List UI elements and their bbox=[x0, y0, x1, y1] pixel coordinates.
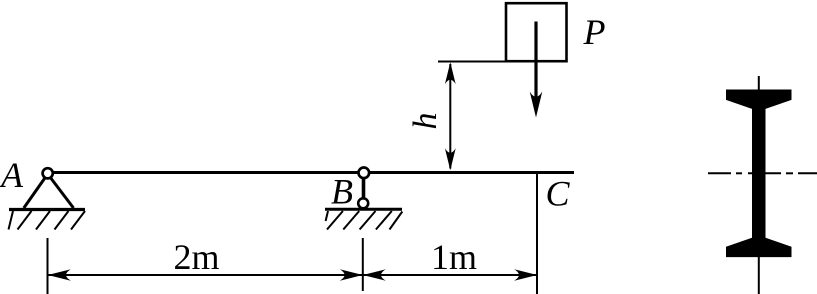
force arrow P bbox=[530, 22, 543, 118]
dimension extension line below A bbox=[47, 238, 49, 294]
arrowhead right at B (2m) bbox=[340, 269, 363, 280]
pin circle B top bbox=[359, 168, 370, 179]
svg-text:A: A bbox=[0, 155, 24, 195]
ground line A bbox=[9, 208, 85, 211]
svg-text:1m: 1m bbox=[431, 237, 477, 277]
svg-text:h: h bbox=[407, 113, 444, 130]
arrowhead left at B (1m) bbox=[363, 269, 386, 280]
dimension h arrow bbox=[445, 62, 456, 170]
ground line B bbox=[325, 208, 402, 211]
dimension line 2m bbox=[48, 274, 363, 276]
beam AC bbox=[50, 171, 574, 174]
svg-text:2m: 2m bbox=[174, 237, 220, 277]
horizontal dash-dot centerline bbox=[708, 172, 817, 174]
arrowhead left at A bbox=[48, 269, 71, 280]
dimension line 1m bbox=[363, 274, 537, 276]
pin circle B bottom bbox=[358, 198, 368, 208]
ledge line bbox=[438, 61, 507, 63]
dimension extension line below B bbox=[362, 238, 364, 291]
support A triangle bbox=[24, 174, 74, 208]
wire: vertical line at C bbox=[536, 174, 538, 294]
svg-text:P: P bbox=[583, 12, 606, 52]
hatching A bbox=[9, 211, 86, 230]
support B link bar bbox=[362, 173, 366, 204]
hatching B bbox=[326, 211, 403, 230]
arrowhead right at C (1m) bbox=[514, 269, 537, 280]
vertical centerline of section bbox=[758, 76, 760, 294]
pin circle A bbox=[43, 168, 53, 178]
weight box P bbox=[506, 3, 567, 61]
svg-text:B: B bbox=[331, 172, 353, 212]
svg-text:C: C bbox=[546, 174, 571, 214]
I-beam cross-section bbox=[727, 90, 792, 257]
